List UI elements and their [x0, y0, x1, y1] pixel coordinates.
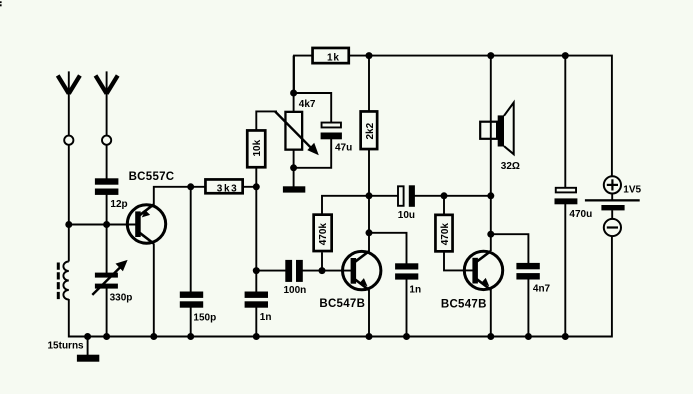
node pot bottom [290, 164, 297, 171]
speaker LS1 32ohm [480, 103, 520, 172]
svg-text:100n: 100n [284, 285, 307, 296]
wire: 1n to rail [255, 308, 257, 337]
node emitter row right [253, 183, 260, 190]
capacitor C9 4n7 [516, 263, 550, 295]
node emitter row left [187, 183, 194, 190]
wire: Q2 emitter to rail [368, 290, 370, 337]
node rail 330p [103, 333, 110, 340]
resistor R4 2k2 [361, 111, 378, 149]
svg-text:1n: 1n [409, 285, 421, 296]
wire: Q1 emitter up and right to node [154, 187, 256, 205]
wire: 4n7 to rail [527, 279, 529, 336]
wire: 150p column [190, 187, 192, 292]
capacitor C6 100n [284, 260, 307, 296]
svg-text:150p: 150p [193, 313, 216, 324]
node top rail at 470u [562, 52, 569, 59]
svg-text:2k2: 2k2 [365, 122, 376, 139]
node base row ant1 [65, 221, 72, 228]
wire: speaker column [490, 56, 492, 196]
capacitor C8 1n second [395, 263, 421, 295]
capacitor C1 12p [95, 178, 128, 210]
resistor R6 470k right [435, 215, 452, 252]
wire: mid rail node to 470k left [322, 196, 369, 214]
svg-text:10u: 10u [398, 210, 415, 221]
wire: speaker node to Q3 collector [490, 196, 492, 251]
node rail 1n [253, 333, 260, 340]
resistor R1 3k3 [205, 179, 242, 194]
node rail Q2 [366, 333, 373, 340]
node rail ground [84, 333, 91, 340]
svg-text:470k: 470k [440, 223, 451, 246]
inductor L1 15turns [48, 262, 85, 352]
wire: antenna 2 column upper [106, 145, 108, 179]
node rail 4n7 [525, 333, 532, 340]
node rail 1n second [403, 333, 410, 340]
node top rail at speaker [487, 52, 494, 59]
wire: 10k column with wiper tap [256, 111, 277, 186]
wire: 47u bottom to pot ground node [294, 139, 332, 168]
resistor R2 10k [247, 130, 265, 167]
svg-text:32Ω: 32Ω [501, 161, 520, 172]
transistor Q3 BC547B [441, 251, 503, 311]
resistor R5 470k left [314, 215, 332, 251]
battery BT1 1V5 [585, 176, 642, 236]
wire: battery internal links [611, 194, 613, 220]
svg-text:BC557C: BC557C [129, 171, 175, 183]
variable capacitor C2 330p [92, 260, 132, 304]
antenna ANT2 [96, 71, 118, 144]
node Q3 collector branch [487, 231, 494, 238]
node Q2 base [319, 267, 326, 274]
wire: 330p to ground rail [106, 288, 108, 337]
svg-text:1k: 1k [327, 52, 340, 63]
ground main [77, 337, 99, 362]
corner artifact mark [0, 1, 2, 6]
resistor R3 1k [313, 48, 349, 63]
wire: 470u bottom to rail [564, 204, 566, 337]
wire: bottom ground rail [69, 236, 612, 336]
wire: top supply rail [294, 56, 612, 177]
transistor Q1 BC557C [127, 171, 174, 244]
svg-text:4n7: 4n7 [533, 284, 551, 295]
svg-text:BC547B: BC547B [441, 299, 487, 311]
capacitor C4 1n [245, 292, 272, 324]
svg-text:47u: 47u [335, 143, 352, 154]
wire: Q3 collector branch to 4n7 [491, 234, 529, 263]
wire: 470k right bottom to Q3 base [444, 252, 474, 270]
capacitor C5 47u electrolytic [321, 123, 353, 154]
node rail Q1 [150, 333, 157, 340]
wire: 150p to rail [190, 308, 192, 337]
wire: mid rail to 10u [369, 195, 398, 197]
capacitor C7 10u electrolytic [398, 185, 415, 221]
node base row ant2 [103, 221, 110, 228]
capacitor C10 470u electrolytic [555, 188, 593, 220]
wire: 2k2 bottom to Q2 collector [368, 150, 370, 252]
wire: Q2 collector branch to 1n [369, 233, 407, 264]
svg-text:3k3: 3k3 [217, 183, 239, 194]
node mid rail at 2k2 [366, 192, 373, 199]
wire: pot node right to 47u top [294, 93, 332, 122]
transistor Q2 BC547B [319, 251, 381, 310]
capacitor C3 150p [180, 292, 216, 324]
wire: 10u right to speaker column [415, 195, 491, 197]
node pot top [290, 90, 297, 97]
ground pot [283, 186, 305, 192]
svg-text:12p: 12p [110, 199, 127, 210]
svg-text:10k: 10k [252, 139, 263, 156]
svg-text:BC547B: BC547B [319, 298, 365, 310]
svg-text:470u: 470u [569, 209, 592, 220]
node mid rail at 470k [441, 192, 448, 199]
antenna ANT1 [58, 71, 80, 144]
wire: pot bottom to ground node [293, 151, 295, 188]
node rail Q3 [487, 333, 494, 340]
potentiometer P1 4k7 [275, 99, 319, 155]
wire: antenna 1 column [68, 145, 70, 262]
node top rail at 2k2 [366, 52, 373, 59]
wire: 470k left bottom to Q2 base [321, 252, 323, 270]
node rail 150p [187, 333, 194, 340]
wire: 1k left leg down to pot node [293, 56, 295, 111]
wire: Q3 emitter to rail [490, 290, 492, 337]
svg-text:470k: 470k [318, 223, 329, 246]
wire: 470u column top [564, 56, 566, 188]
svg-text:1V5: 1V5 [623, 185, 641, 196]
svg-text:330p: 330p [110, 293, 133, 304]
svg-text:4k7: 4k7 [299, 99, 316, 110]
wire: Q1 collector down to rail [153, 244, 155, 337]
svg-text:1n: 1n [260, 312, 272, 323]
node Q2 collector branch [366, 229, 373, 236]
node mid rail at speaker [487, 192, 494, 199]
wire: 1n node to 100n left [256, 270, 285, 272]
node 100n left [253, 267, 260, 274]
wire: 1n second to rail [406, 279, 408, 336]
wire: 12p to 330p segment [106, 195, 108, 274]
wire: 2k2 column top [368, 56, 370, 111]
svg-text:15turns: 15turns [48, 341, 85, 352]
wire: 100n right to Q2 base [303, 270, 353, 272]
wire: base row to Q1 [69, 224, 137, 226]
wire: node to 1n column [255, 187, 257, 292]
node rail 470u [562, 333, 569, 340]
wire: 470k right column [443, 196, 445, 214]
